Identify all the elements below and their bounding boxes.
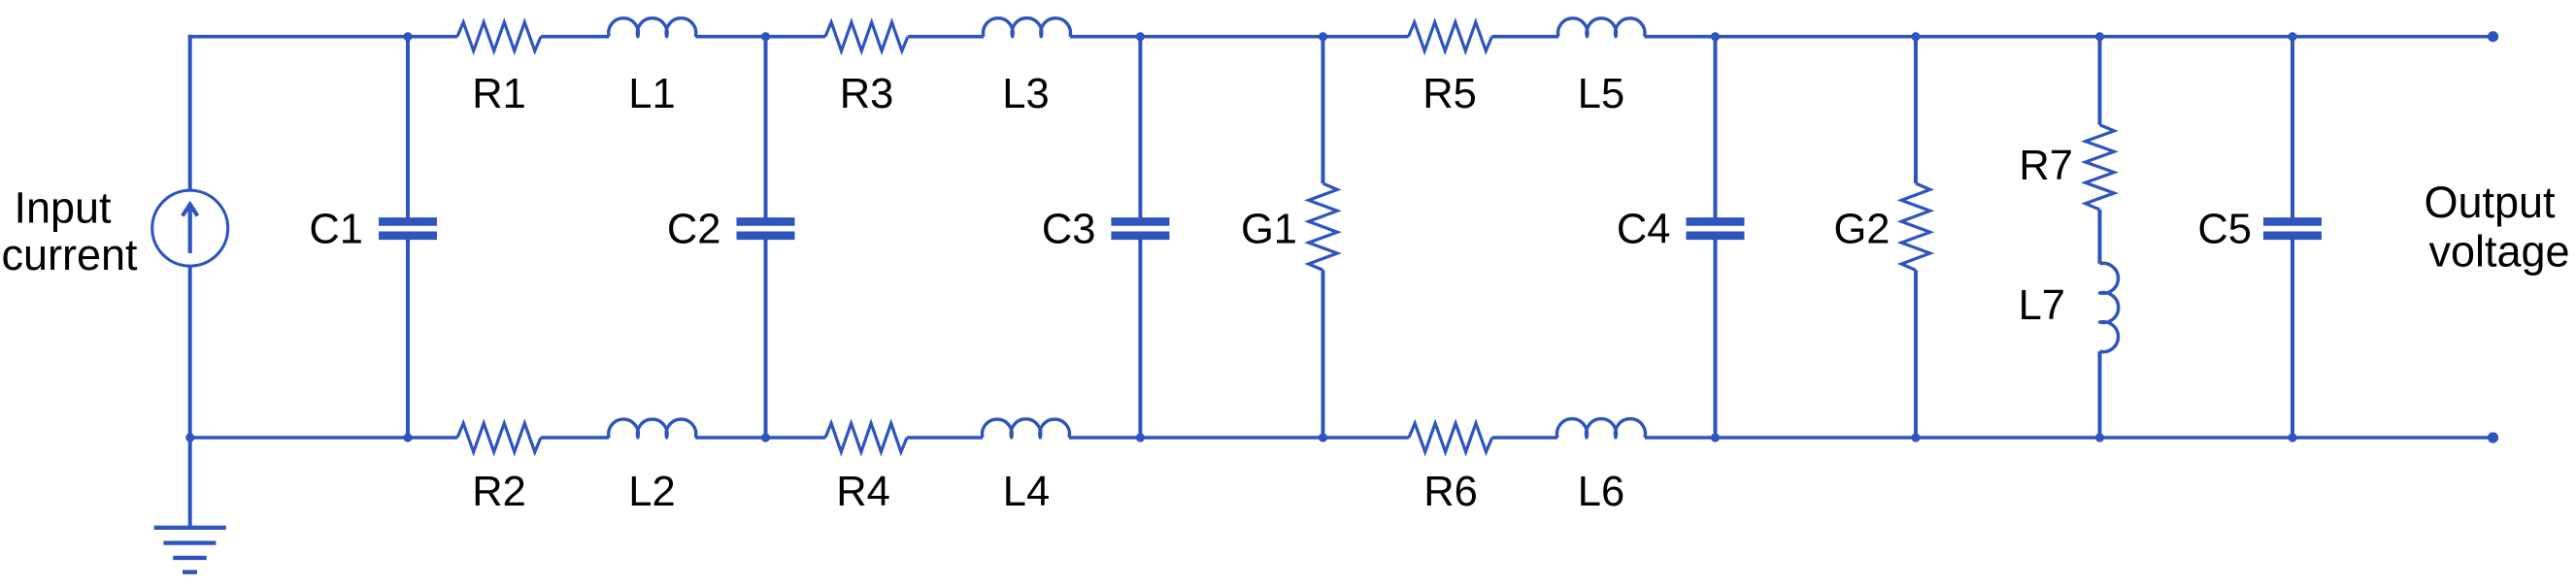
wire top rail: R5 to L5 [1492, 35, 1559, 39]
node: output terminal - [2488, 432, 2498, 442]
node: G1 top junction [1319, 32, 1327, 41]
svg-text:R5: R5 [1422, 71, 1477, 117]
node: G2 top junction [1911, 32, 1920, 41]
svg-text:R7: R7 [2019, 143, 2073, 189]
wire: top rail to C1 [406, 37, 410, 218]
wire: top rail to C5 [2291, 37, 2294, 218]
resistor R1 [457, 22, 541, 51]
node: C5 bottom junction [2288, 433, 2296, 441]
node: L7 branch bottom junction [2095, 433, 2104, 441]
node: R7 branch top junction [2095, 32, 2104, 41]
inductor L1 [609, 18, 696, 37]
capacitor C5 [2263, 221, 2322, 235]
capacitor C1 [379, 221, 437, 235]
capacitor C4 [1687, 221, 1745, 235]
node: C3 top junction [1136, 32, 1145, 41]
wire top rail: R1 to L1 [541, 35, 609, 39]
svg-text:L7: L7 [2019, 282, 2065, 329]
svg-text:R4: R4 [836, 469, 890, 515]
node: C4 bottom junction [1711, 433, 1720, 441]
node: G1 bottom junction [1319, 433, 1327, 441]
inductor L4 [983, 419, 1070, 438]
svg-text:R6: R6 [1423, 469, 1478, 515]
resistor G1 (shunt) [1309, 183, 1338, 270]
wire bottom rail: L6 to output terminal [1645, 436, 2493, 440]
wire: top rail down to current source [188, 35, 192, 191]
svg-text:R3: R3 [840, 71, 894, 117]
node: C3 bottom junction [1136, 433, 1145, 441]
svg-text:Input: Input [14, 183, 112, 233]
svg-text:C1: C1 [309, 207, 363, 253]
inductor L7 [2100, 263, 2119, 351]
wire bottom rail: L2 to R4 (through node C2) [695, 436, 825, 440]
node: C5 top junction [2288, 32, 2296, 41]
wire: top rail to G1 [1321, 37, 1325, 183]
resistor R2 [457, 423, 541, 452]
wire: top rail to R7 [2098, 37, 2102, 125]
node: output terminal + [2488, 31, 2498, 42]
wire: C4 to bottom rail [1714, 239, 1718, 438]
wire: top rail to C3 [1138, 37, 1142, 218]
inductor L3 [984, 18, 1071, 37]
inductor L6 [1557, 419, 1646, 438]
wire bottom rail: R6 to L6 [1492, 436, 1557, 440]
wire: G2 to bottom rail [1914, 270, 1918, 438]
wire: current source down to bottom rail [188, 266, 192, 438]
wire: C3 to bottom rail [1138, 239, 1142, 438]
capacitor C2 [737, 221, 795, 235]
resistor R7 [2086, 125, 2115, 210]
node: C2 top junction [761, 32, 770, 41]
wire: C2 to bottom rail [764, 239, 768, 438]
svg-text:G2: G2 [1833, 207, 1890, 253]
wire: top rail to C4 [1714, 37, 1718, 218]
wire top rail: L3 to R5 (through nodes C3, G1) [1070, 35, 1409, 39]
capacitor C3 [1111, 221, 1169, 235]
svg-text:L3: L3 [1002, 71, 1049, 117]
svg-text:voltage: voltage [2428, 227, 2569, 277]
wire: C1 to bottom rail [406, 239, 410, 438]
wire: bottom rail to ground [188, 438, 192, 528]
svg-text:Output: Output [2424, 178, 2556, 227]
wire: L7 to bottom rail [2098, 351, 2102, 438]
wire: top rail to G2 [1914, 37, 1918, 183]
resistor R4 [825, 423, 907, 452]
svg-text:L6: L6 [1578, 469, 1624, 515]
svg-text:current: current [1, 230, 138, 279]
node: C1 bottom junction [403, 433, 412, 441]
svg-text:L5: L5 [1578, 71, 1624, 117]
svg-text:C5: C5 [2197, 207, 2252, 253]
wire bottom rail: L4 to R6 (through nodes C3, G1) [1069, 436, 1409, 440]
wire top rail: L5 to output terminal [1645, 35, 2493, 39]
resistor G2 (shunt) [1901, 183, 1930, 270]
resistor R6 [1409, 423, 1492, 452]
svg-text:L2: L2 [628, 469, 675, 515]
wire bottom rail: R2 to L2 [541, 436, 609, 440]
wire top rail: R3 to L3 [908, 35, 984, 39]
current source (input) [152, 190, 228, 266]
svg-text:R2: R2 [472, 469, 526, 515]
wire bottom rail: R4 to L4 [907, 436, 983, 440]
svg-text:L4: L4 [1003, 469, 1050, 515]
svg-text:G1: G1 [1241, 207, 1297, 253]
node: G2 bottom junction [1911, 433, 1920, 441]
wire: R7 to L7 [2098, 210, 2102, 264]
wire top rail: source corner to R1 [188, 35, 457, 39]
node: C4 top junction [1711, 32, 1720, 41]
svg-text:C4: C4 [1617, 207, 1671, 253]
node: source / ground junction [185, 433, 194, 441]
resistor R3 [825, 22, 908, 51]
inductor L2 [609, 419, 696, 438]
svg-text:L1: L1 [628, 71, 675, 117]
svg-text:R1: R1 [472, 71, 526, 117]
svg-text:C3: C3 [1042, 207, 1096, 253]
inductor L5 [1558, 18, 1645, 37]
wire: top rail to C2 [764, 37, 768, 218]
wire: G1 to bottom rail [1321, 270, 1325, 438]
ground [154, 528, 226, 572]
svg-text:C2: C2 [667, 207, 721, 253]
wire top rail: L1 to R3 (through node C2) [695, 35, 825, 39]
resistor R5 [1409, 22, 1492, 51]
wire: C5 to bottom rail [2291, 239, 2294, 438]
wire bottom rail: ground node to R2 [190, 436, 457, 440]
node: C2 bottom junction [761, 433, 770, 441]
node: C1 top junction [403, 32, 412, 41]
